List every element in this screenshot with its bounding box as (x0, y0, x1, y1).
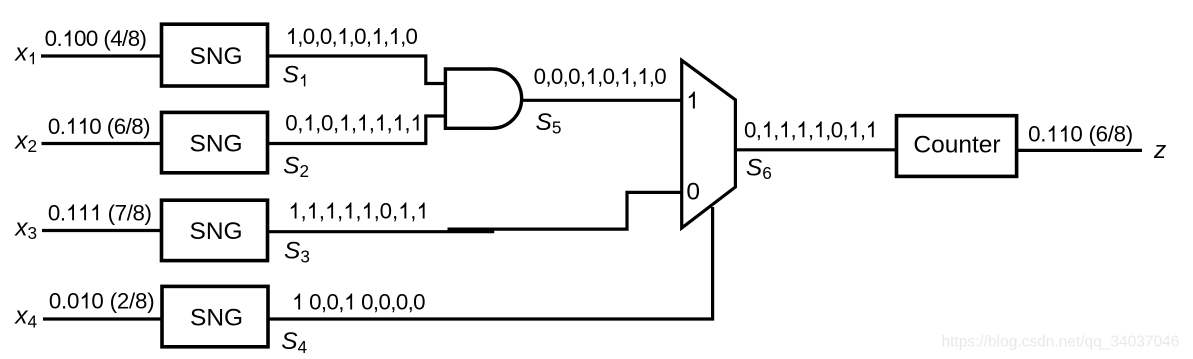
svg-text:,: , (756, 117, 762, 142)
wire x1 input (41, 54, 163, 57)
svg-text:,: , (632, 64, 638, 89)
svg-text:SNG: SNG (190, 130, 243, 157)
sequence label S6 bits (744, 117, 874, 142)
svg-text:,: , (297, 111, 303, 136)
wire S4 to MUX select (268, 207, 713, 319)
svg-text:8: 8 (128, 26, 140, 51)
svg-text:,: , (580, 64, 586, 89)
svg-text:,: , (338, 290, 344, 315)
wire S1 to AND gate (267, 56, 445, 84)
SNG U3 (162, 200, 268, 260)
svg-text:0: 0 (48, 114, 60, 139)
node x1 (14, 40, 34, 67)
svg-text:0: 0 (831, 117, 843, 142)
Counter U5 (897, 116, 1017, 177)
net label S1 (283, 62, 306, 89)
svg-text:,: , (790, 117, 796, 142)
svg-text:,: , (333, 111, 339, 136)
svg-text:,: , (366, 24, 372, 49)
svg-text:,: , (355, 199, 361, 224)
node x2 (14, 127, 37, 156)
sequence label S2 bits (285, 111, 418, 136)
svg-text:0: 0 (354, 24, 366, 49)
svg-text:): ) (147, 289, 154, 314)
sequence label S4 bits (294, 290, 425, 315)
svg-text:0: 0 (744, 117, 756, 142)
svg-text:0: 0 (86, 26, 98, 51)
svg-text:7: 7 (115, 200, 127, 225)
svg-text:0: 0 (49, 289, 61, 314)
wire S6 MUX output to Counter (734, 148, 896, 151)
svg-text:.: . (56, 26, 62, 51)
wire S3 segment from SNG (267, 230, 494, 233)
svg-text:x: x (14, 40, 28, 67)
svg-text:0: 0 (361, 290, 373, 315)
wire x4 input (43, 317, 163, 320)
svg-text:0: 0 (309, 290, 321, 315)
net label S6 (746, 154, 772, 183)
svg-text:8: 8 (131, 114, 143, 139)
svg-text:0: 0 (603, 64, 615, 89)
svg-text:S: S (283, 62, 300, 89)
svg-text:2: 2 (117, 289, 129, 314)
svg-text:0: 0 (551, 64, 563, 89)
wire S3 segment to MUX 0 input (448, 192, 684, 229)
svg-text:0: 0 (1070, 122, 1082, 147)
SNG U1 (162, 24, 268, 86)
svg-text:8: 8 (133, 200, 145, 225)
svg-text:): ) (140, 26, 147, 51)
svg-text:,: , (387, 111, 393, 136)
svg-text:8: 8 (1114, 122, 1126, 147)
sequence label S1 bits (288, 24, 418, 49)
value label 0.111 (7/8) (48, 200, 152, 225)
svg-text:z: z (1153, 137, 1166, 164)
mux MUX1 body (682, 60, 736, 228)
svg-text:0: 0 (378, 290, 390, 315)
svg-text:SNG: SNG (190, 304, 243, 331)
svg-text:.: . (1040, 122, 1046, 147)
svg-text:,: , (404, 111, 410, 136)
svg-text:0: 0 (67, 289, 79, 314)
svg-text:.: . (60, 200, 66, 225)
svg-text:6: 6 (114, 114, 126, 139)
wire Counter output to z (1017, 149, 1142, 152)
pin 0 label (686, 178, 700, 205)
svg-text:0: 0 (320, 24, 332, 49)
svg-text:https://blog.csdn.net/qq_34037: https://blog.csdn.net/qq_34037046 (942, 334, 1180, 351)
svg-text:,: , (337, 199, 343, 224)
net label S4 (281, 328, 307, 357)
svg-text:,: , (410, 199, 416, 224)
svg-text:6: 6 (1096, 122, 1108, 147)
svg-text:SNG: SNG (190, 218, 243, 245)
svg-text:0: 0 (326, 290, 338, 315)
svg-text:0: 0 (1028, 122, 1040, 147)
net label S2 (283, 152, 309, 181)
watermark (942, 334, 1180, 351)
svg-text:): ) (1126, 122, 1133, 147)
svg-text:,: , (773, 117, 779, 142)
sequence label S5 bits (534, 64, 667, 89)
wire S5 AND output to MUX 1 input (521, 99, 683, 102)
AND gate (445, 69, 521, 128)
svg-text:,: , (369, 111, 375, 136)
svg-text:8: 8 (135, 289, 147, 314)
svg-text:0: 0 (89, 114, 101, 139)
svg-text:,: , (842, 117, 848, 142)
node x4 (14, 303, 37, 332)
svg-text:,: , (383, 24, 389, 49)
wire x2 input (42, 142, 164, 145)
sequence label S3 bits (291, 199, 425, 224)
pin 1 label (689, 91, 695, 108)
value label 0.010 (2/8) (49, 289, 155, 314)
svg-text:0: 0 (91, 289, 103, 314)
node z (1153, 137, 1166, 164)
net label S5 (536, 109, 562, 138)
svg-text:,: , (808, 117, 814, 142)
SNG U4 (162, 286, 268, 346)
svg-text:0: 0 (380, 199, 392, 224)
svg-text:): ) (145, 200, 152, 225)
svg-text:0: 0 (568, 64, 580, 89)
net label S3 (284, 238, 310, 267)
svg-text:,: , (332, 24, 338, 49)
svg-text:4: 4 (110, 26, 122, 51)
node x3 (14, 214, 37, 243)
wire x3 input (42, 229, 163, 232)
svg-text:0: 0 (396, 290, 408, 315)
svg-text:Counter: Counter (913, 131, 1000, 158)
svg-text:0: 0 (285, 111, 297, 136)
svg-text:,: , (860, 117, 866, 142)
svg-text:0: 0 (686, 178, 700, 205)
svg-text:0: 0 (321, 111, 333, 136)
svg-text:0: 0 (654, 64, 666, 89)
svg-text:0: 0 (48, 200, 60, 225)
wire S2 to AND gate (267, 116, 445, 144)
svg-text:0: 0 (45, 26, 57, 51)
svg-text:SNG: SNG (190, 43, 243, 70)
svg-text:0: 0 (303, 24, 315, 49)
svg-text:0: 0 (74, 26, 86, 51)
svg-text:,: , (614, 64, 620, 89)
svg-text:.: . (60, 114, 66, 139)
svg-text:,: , (319, 199, 325, 224)
value label 0.110 (6/8) output (1028, 122, 1133, 147)
svg-text:,: , (351, 111, 357, 136)
svg-text:,: , (392, 199, 398, 224)
svg-text:): ) (143, 114, 150, 139)
svg-text:0: 0 (534, 64, 546, 89)
svg-text:0: 0 (406, 24, 418, 49)
svg-text:0: 0 (413, 290, 425, 315)
value label 0.110 (6/8) (48, 114, 151, 139)
svg-text:,: , (300, 199, 306, 224)
value label 0.100 (4/8) (45, 26, 147, 51)
SNG U2 (162, 112, 268, 172)
